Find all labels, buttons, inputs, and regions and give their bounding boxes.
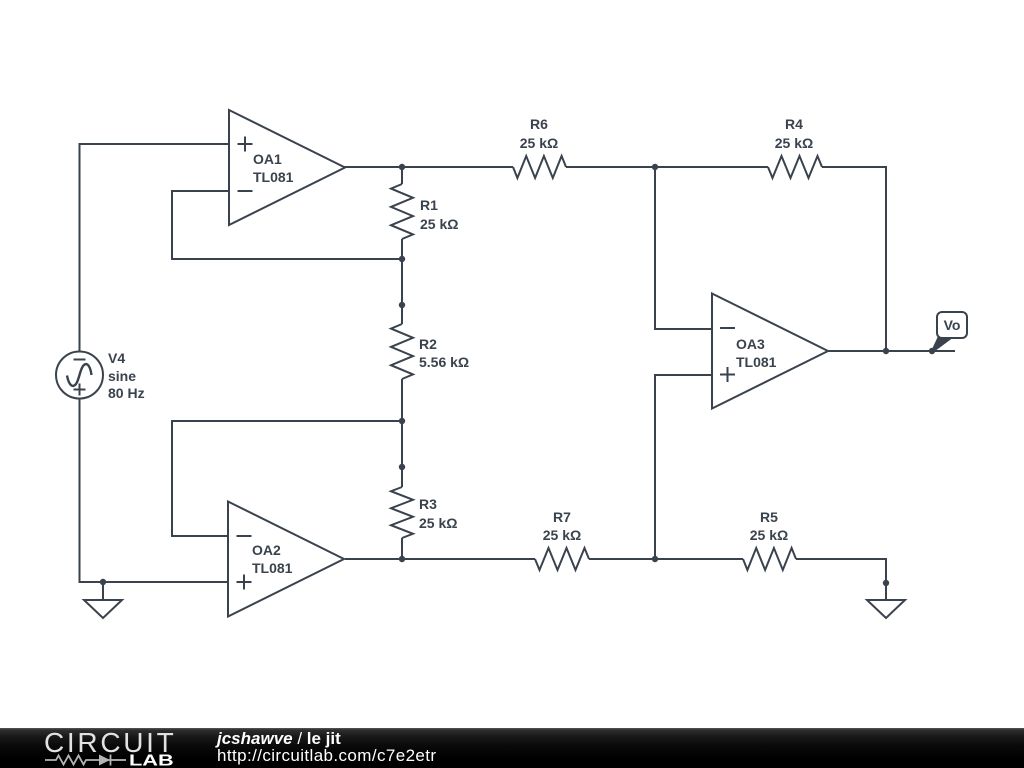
svg-text:25 kΩ: 25 kΩ [420,216,458,232]
op-amp OA1 TL081 [229,110,345,225]
svg-text:R5: R5 [760,509,778,525]
svg-text:25 kΩ: 25 kΩ [750,527,788,543]
svg-text:OA1: OA1 [253,151,282,167]
node Vo flag [932,312,968,353]
wire OA1 - feedback loop [172,191,402,259]
svg-text:R7: R7 [553,509,571,525]
svg-text:sine: sine [108,368,136,384]
svg-text:25 kΩ: 25 kΩ [520,135,558,151]
resistor R3 25k vertical [391,487,413,538]
wire OA2 - feedback loop [172,421,402,536]
op-amp OA2 TL081 [228,502,344,617]
wire R5 to right ground [796,559,886,583]
resistor R2 5.56k vertical [391,324,413,379]
svg-text:TL081: TL081 [253,169,294,185]
voltage source V4 sine 80Hz [56,352,103,399]
svg-text:80 Hz: 80 Hz [108,385,145,401]
svg-text:R4: R4 [785,116,803,132]
resistor R4 25k horizontal [768,156,822,178]
svg-text:V4: V4 [108,350,125,366]
svg-text:OA3: OA3 [736,336,765,352]
svg-text:R2: R2 [419,336,437,352]
svg-text:R6: R6 [530,116,548,132]
svg-text:TL081: TL081 [252,560,293,576]
svg-text:25 kΩ: 25 kΩ [419,515,457,531]
resistor R5 25k horizontal [743,548,796,570]
svg-text:OA2: OA2 [252,542,281,558]
wire R7 to R5 [589,558,743,560]
svg-text:LAB: LAB [129,752,174,768]
wire OA2 output to R7 [345,558,535,560]
resistor R6 25k horizontal [513,156,566,178]
resistor R7 25k horizontal [535,548,589,570]
resistor R1 25k vertical [391,184,413,239]
svg-text:Vo: Vo [944,317,961,333]
svg-text:5.56 kΩ: 5.56 kΩ [419,354,469,370]
svg-text:TL081: TL081 [736,354,777,370]
svg-text:R3: R3 [419,496,437,512]
wire R4 right to corner down to OA3 output net [822,167,886,351]
wire OA1 output to R6 [344,166,513,168]
svg-text:25 kΩ: 25 kΩ [775,135,813,151]
wire R6 to R4 [566,166,768,168]
wire node to OA3 - input [655,167,712,329]
wire OA3 + input down to bottom net [655,375,712,559]
svg-text:25 kΩ: 25 kΩ [543,527,581,543]
wire V4 top to OA1 + input [80,144,230,352]
ground right [867,583,905,618]
wire middle resistor column [401,167,403,184]
wire OA3 output to Vo [828,350,955,352]
op-amp OA3 TL081 [712,294,828,409]
credits text [217,731,436,764]
svg-text:R1: R1 [420,197,438,213]
CircuitLab logo [44,731,176,755]
wire V4 bottom to OA2 + input [80,398,230,582]
ground left [84,582,122,618]
